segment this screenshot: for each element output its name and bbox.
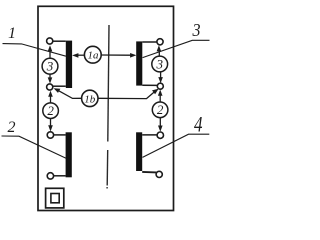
leader line for label 1	[3, 44, 66, 57]
center axis line	[107, 25, 109, 189]
element 3 top lead wire	[142, 41, 158, 43]
svg-text:3: 3	[46, 59, 54, 74]
element 3 bar	[136, 41, 142, 85]
dimension circle 2 left	[43, 103, 59, 119]
arrow from circle 2 right down to node	[159, 118, 161, 127]
element 3 bottom terminal node	[157, 83, 163, 89]
element 1 top lead wire	[51, 40, 66, 42]
dimension circle 3 left	[42, 58, 58, 74]
element 2 top lead wire	[52, 134, 66, 136]
class II insulation symbol inner square	[51, 194, 59, 203]
element 2 bar	[66, 132, 72, 177]
arrow from circle 2 right up to node	[159, 95, 161, 102]
element 1 bottom lead wire	[51, 85, 66, 87]
arrow from circle 3 right up to node	[158, 50, 160, 56]
arrow from circle 3 left up to node	[49, 50, 51, 58]
element 1 bottom terminal node	[47, 84, 53, 90]
element 3 top terminal node	[157, 39, 163, 45]
leader line for label 4	[143, 134, 210, 157]
svg-text:4: 4	[194, 112, 203, 137]
arrow 1a to element 3	[101, 54, 132, 56]
arrow from circle 2 left up to node	[50, 96, 52, 103]
dimension circle 2 right	[152, 102, 168, 118]
element 2 top terminal node	[47, 132, 53, 138]
arrow from circle 2 left down to node	[50, 119, 52, 127]
svg-text:1b: 1b	[84, 93, 96, 105]
dimension circle 1a	[84, 46, 101, 63]
arrow 1b to element 1 bottom node	[59, 91, 81, 99]
svg-text:2: 2	[8, 119, 16, 136]
class II insulation symbol outer square	[46, 188, 64, 208]
element 4 bottom terminal node	[156, 171, 162, 177]
element 3 bottom lead wire	[142, 84, 158, 86]
element 4 top terminal node	[157, 132, 163, 138]
element 4 bar	[136, 132, 142, 171]
arrow 1b to element 3 bottom node	[98, 92, 155, 99]
element 2 bottom lead wire	[52, 175, 66, 177]
element 2 bottom terminal node	[47, 173, 53, 179]
element 1 top terminal node	[47, 38, 53, 44]
arrow 1a to element 1	[77, 54, 85, 56]
element 1 bar	[66, 41, 72, 88]
enclosure outline	[38, 6, 174, 210]
svg-text:3: 3	[155, 56, 163, 71]
svg-text:2: 2	[157, 102, 164, 117]
leader line for label 2	[2, 136, 67, 158]
arrow from circle 3 left down to node	[49, 74, 51, 79]
arrow from circle 3 right down to node	[160, 72, 162, 79]
leader line for label 3	[143, 40, 210, 57]
element 4 top lead wire	[142, 134, 158, 136]
dimension circle 3 right	[152, 56, 168, 72]
svg-text:1: 1	[8, 25, 16, 42]
svg-text:3: 3	[192, 20, 201, 40]
dimension circle 1b	[82, 90, 98, 106]
element 4 bottom lead wire	[142, 171, 156, 174]
svg-text:1a: 1a	[88, 50, 100, 62]
svg-text:2: 2	[47, 103, 54, 118]
